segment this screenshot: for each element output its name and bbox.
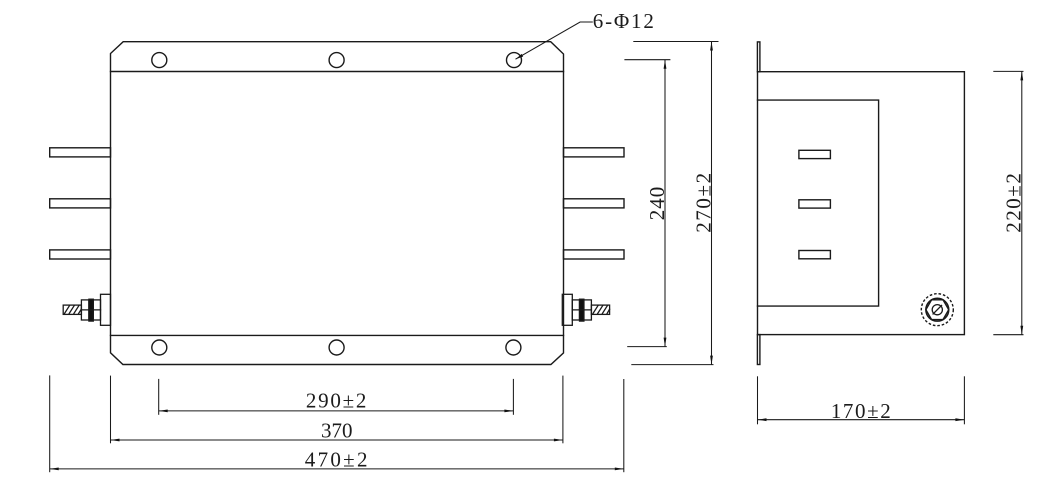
ground stud left — [63, 294, 110, 325]
svg-text:370: 370 — [321, 419, 353, 443]
terminal R3 — [564, 250, 625, 259]
mounting hole T3 — [507, 53, 522, 68]
side slot 1 — [799, 150, 831, 158]
dimension 170+-2 — [758, 376, 965, 424]
mounting hole T1 — [152, 53, 167, 68]
svg-text:6-Φ12: 6-Φ12 — [593, 9, 656, 33]
top flange line — [111, 71, 564, 73]
dimension 240 — [624, 60, 670, 347]
dimension 470+-2 — [50, 375, 624, 472]
dimension 270+-2 — [631, 42, 718, 365]
dimension 370 — [111, 376, 563, 444]
mounting hole B2 — [329, 340, 344, 355]
svg-text:220±2: 220±2 — [1002, 172, 1026, 233]
svg-text:170±2: 170±2 — [831, 399, 893, 423]
side view outer box — [757, 42, 964, 365]
terminal L3 — [50, 250, 111, 259]
terminal L2 — [50, 199, 111, 208]
front view outline — [111, 42, 564, 365]
terminal R2 — [564, 199, 625, 208]
mounting hole B3 — [506, 340, 521, 355]
bottom flange line — [111, 334, 564, 336]
ground stud right — [562, 294, 609, 325]
side flange tab bottom — [757, 335, 760, 365]
svg-text:240: 240 — [645, 186, 669, 221]
svg-text:470±2: 470±2 — [305, 447, 370, 471]
side slot 2 — [799, 200, 831, 208]
dimension 290+-2 — [159, 379, 514, 415]
mounting hole T2 — [329, 53, 344, 68]
terminal L1 — [50, 148, 111, 157]
dimension 220+-2 — [993, 71, 1023, 334]
svg-text:270±2: 270±2 — [691, 171, 715, 233]
svg-text:290±2: 290±2 — [306, 389, 368, 413]
side flange tab top — [757, 42, 760, 72]
ground screw side view — [921, 294, 953, 326]
side inner box — [758, 100, 879, 306]
mounting hole B1 — [152, 340, 167, 355]
leader 6-phi12 — [516, 22, 593, 59]
side slot 3 — [799, 251, 831, 259]
terminal R1 — [564, 148, 625, 157]
